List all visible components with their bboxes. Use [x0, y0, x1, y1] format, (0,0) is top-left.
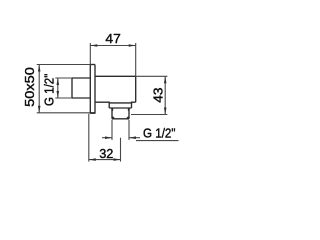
dimension 50x50 extension lines	[37, 64, 91, 66]
dimension 50x50 line	[38, 65, 40, 113]
svg-text:G 1/2": G 1/2"	[143, 125, 176, 140]
G 1/2 bottom arrows	[105, 136, 112, 139]
svg-text:50x50: 50x50	[22, 67, 37, 107]
dimension G 1/2 bottom leader lines	[102, 137, 112, 139]
svg-text:47: 47	[105, 31, 120, 46]
body block	[95, 76, 136, 103]
dimension 47 line	[90, 45, 135, 47]
50x50 arrows	[38, 65, 41, 72]
svg-text:32: 32	[99, 146, 113, 161]
dimension 43 extension lines	[136, 75, 168, 77]
dimension G 1/2 left extension lines	[55, 77, 72, 79]
dimension 32 line	[89, 159, 121, 161]
dimension 47 extension lines	[89, 43, 91, 65]
inlet boss G 1/2 rear stub	[72, 78, 90, 98]
dimension 43 line	[164, 76, 166, 114]
32 arrows	[89, 158, 96, 161]
wall plate 50x50 side view	[90, 65, 96, 114]
arrowheads	[38, 44, 167, 161]
43 arrows	[164, 76, 167, 83]
dimension 32 extension lines	[88, 114, 90, 162]
svg-text:43: 43	[151, 88, 166, 103]
outlet collar	[109, 102, 131, 108]
outlet thread G 1/2	[112, 108, 129, 119]
dimension G 1/2 left line	[57, 78, 59, 98]
47 arrows	[90, 44, 97, 47]
G 1/2 left arrows	[57, 78, 60, 85]
dimension G 1/2 bottom extension lines	[111, 120, 113, 140]
svg-text:G 1/2": G 1/2"	[42, 73, 57, 106]
